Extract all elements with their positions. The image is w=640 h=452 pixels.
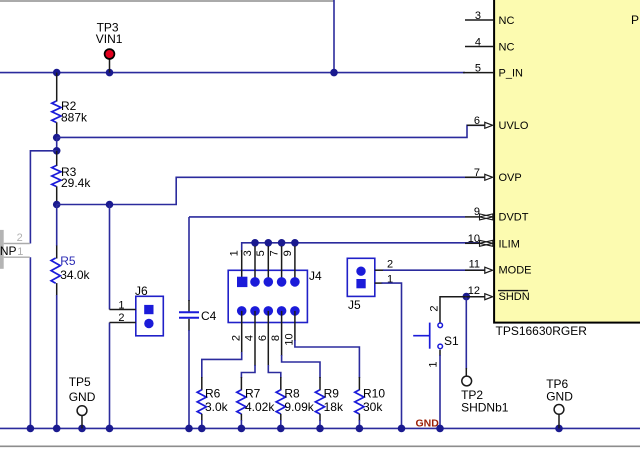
svg-text:R9: R9 [324, 387, 340, 401]
node junction R3 top / DNP branch [53, 147, 61, 155]
svg-text:NC: NC [499, 15, 515, 27]
resistor R7 4.02k [237, 377, 276, 428]
frame lines (decorative) [0, 0, 334, 2]
svg-text:12: 12 [468, 285, 480, 297]
svg-text:6: 6 [474, 115, 480, 127]
svg-text:3.0k: 3.0k [205, 400, 229, 414]
resistor R2 887k [52, 73, 88, 138]
svg-text:1: 1 [17, 246, 23, 258]
node junction VIN/TP3 [106, 69, 114, 77]
svg-text:R5: R5 [60, 254, 76, 268]
wire branch to DNP resistor at x=30.4 [30, 151, 56, 244]
wire DNP pin1 down to ground rail [29, 257, 31, 428]
svg-text:6: 6 [257, 335, 269, 341]
svg-text:10: 10 [468, 233, 480, 245]
node junction bus/pin7 [278, 239, 286, 247]
svg-text:4: 4 [244, 335, 256, 341]
wire J4 top bus y=242.8 to ILIM pin [242, 243, 482, 252]
svg-text:8: 8 [270, 335, 282, 341]
J4 bottom pin leads [242, 311, 295, 366]
wire J5 pin1 to ground rail [382, 283, 402, 428]
U1 pin 9 DVDT [465, 206, 529, 224]
wire between R2 node and R3 node [56, 138, 58, 151]
wire VIN bus y=72.6 [0, 72, 465, 74]
svg-text:4.02k: 4.02k [245, 400, 275, 414]
svg-text:34.0k: 34.0k [60, 268, 90, 282]
svg-text:P: P [631, 13, 639, 27]
switch S1 pushbutton [413, 306, 459, 368]
connector J5 [347, 258, 393, 312]
svg-text:2: 2 [230, 335, 242, 341]
node junction bus/pin3 [251, 239, 259, 247]
node junction rail/R10 [356, 425, 364, 433]
svg-text:9: 9 [474, 206, 480, 218]
svg-text:2: 2 [428, 306, 440, 312]
svg-text:OVP: OVP [499, 172, 522, 184]
svg-text:7: 7 [269, 250, 281, 256]
node junction rail/J5 [398, 425, 406, 433]
wire J4 pin10 to R10 [295, 340, 360, 378]
svg-text:30k: 30k [363, 400, 383, 414]
U1 pin 12 SHDN (active low) [466, 285, 529, 303]
wire S1 pin1 to ground rail [439, 350, 441, 356]
svg-text:R7: R7 [245, 387, 261, 401]
svg-text:2: 2 [17, 232, 23, 244]
node junction rail/R6 [198, 425, 206, 433]
wire J4 pin4 to R7 [241, 365, 255, 378]
wire UVLO net y=137.4 with jog up at x=467 [57, 125, 484, 137]
svg-text:J6: J6 [135, 284, 148, 298]
resistor R10 30k [355, 377, 386, 428]
resistor R6 3.0k [197, 377, 228, 428]
svg-text:11: 11 [469, 259, 480, 271]
testpoint TP3 VIN1 [96, 20, 123, 72]
wire MODE net from J5 pin2 [383, 269, 485, 271]
svg-text:S1: S1 [444, 334, 459, 348]
testpoint TP2 SHDNb1 [461, 376, 509, 415]
svg-text:ILIM: ILIM [499, 239, 520, 251]
resistor R9 18k [315, 377, 344, 428]
node junction bus/pin5 [265, 239, 273, 247]
wire J4 pin6 to R8 [268, 365, 281, 378]
svg-text:J5: J5 [348, 298, 361, 312]
node junction on VIN bus at x=334 [330, 69, 338, 77]
svg-text:4: 4 [475, 36, 481, 48]
wire J4 pin2 to R6 [202, 352, 242, 378]
wire DVDT net from C4 top [189, 216, 465, 218]
svg-text:2: 2 [118, 312, 124, 324]
J4 pads bottom row [237, 306, 247, 316]
svg-text:29.4k: 29.4k [61, 176, 91, 190]
connector J6 [110, 284, 164, 336]
wire SHDN to TP2 [465, 297, 467, 369]
svg-text:3: 3 [242, 250, 254, 256]
J4 pin number labels top row 1 3 5 7 9 [229, 250, 294, 256]
U1 pin 10 ILIM [465, 233, 520, 251]
svg-text:18k: 18k [324, 400, 344, 414]
connector J4 header 2x5 [228, 269, 322, 323]
node junction rail/TP5 [78, 425, 86, 433]
svg-text:C4: C4 [201, 309, 217, 323]
node junction bus/pin9 [291, 239, 299, 247]
J4 top pin leads [242, 246, 295, 282]
svg-text:GND: GND [69, 390, 96, 404]
svg-text:TPS16630RGER: TPS16630RGER [496, 324, 588, 338]
svg-text:GND: GND [546, 389, 573, 403]
wire vertical from top at x=334 [333, 0, 335, 73]
svg-text:NC: NC [499, 41, 515, 53]
wire J4 pin8 to R9 [282, 355, 320, 378]
svg-text:R6: R6 [205, 387, 221, 401]
svg-text:887k: 887k [61, 110, 88, 124]
svg-text:P_IN: P_IN [499, 67, 524, 79]
svg-text:10: 10 [283, 333, 295, 345]
svg-text:9.09k: 9.09k [284, 400, 314, 414]
node junction rail/R8 [277, 425, 285, 433]
node junction rail/S1 [436, 425, 444, 433]
node junction SHDN pin12 [463, 293, 471, 301]
ground rail wire y=428.4 [0, 427, 640, 429]
node junction rail/C4 [185, 425, 193, 433]
svg-text:3: 3 [475, 10, 481, 22]
J4 pin number labels bottom row 2 4 6 8 10 [230, 333, 295, 345]
J4 pads top row (pin1 square) [237, 277, 247, 287]
svg-text:DNP: DNP [0, 244, 17, 258]
svg-text:VIN1: VIN1 [96, 32, 123, 46]
svg-text:TP5: TP5 [69, 375, 91, 389]
node junction R2/R3/UVLO [53, 134, 61, 142]
capacitor C4 [179, 217, 217, 428]
svg-text:7: 7 [474, 167, 480, 179]
U1 pin 7 OVP [465, 167, 522, 184]
svg-text:1: 1 [428, 362, 440, 368]
node junction VIN/R2 [53, 69, 61, 77]
svg-text:1: 1 [229, 250, 241, 256]
wire OVP net y=204.5 jog up at x=176 [57, 177, 485, 204]
svg-text:R10: R10 [363, 387, 385, 401]
node junction rail/R5 [53, 425, 61, 433]
svg-text:5: 5 [255, 250, 267, 256]
U1 pin 4 NC [465, 36, 514, 53]
DNP component (greyed, off-page left) [0, 230, 30, 269]
wire SHDN to switch S1 [440, 297, 466, 324]
svg-text:9: 9 [282, 250, 294, 256]
svg-text:R8: R8 [284, 387, 300, 401]
op IC U1 TPS16630RGER block [494, 0, 640, 338]
resistor R5 34.0k [51, 205, 90, 429]
wire down to J6 pin1 [109, 205, 111, 310]
U1 pin 5 P_IN [463, 62, 523, 79]
svg-text:UVLO: UVLO [499, 120, 529, 132]
svg-text:5: 5 [475, 62, 481, 74]
node junction OVP/J6 branch [106, 201, 114, 209]
testpoint TP5 GND [69, 375, 96, 428]
node junction rail/J6 [106, 425, 114, 433]
resistor R8 9.09k [276, 377, 315, 428]
svg-text:SHDNb1: SHDNb1 [461, 401, 509, 415]
U1 pin 3 NC [465, 10, 514, 27]
svg-text:SHDN: SHDN [499, 291, 530, 303]
svg-text:MODE: MODE [499, 265, 532, 277]
node junction rail/R9 [316, 425, 324, 433]
node junction rail/R7 [238, 425, 246, 433]
U1 pin 11 MODE [465, 259, 532, 277]
svg-text:J4: J4 [309, 269, 322, 283]
svg-text:2: 2 [387, 259, 393, 271]
svg-text:DVDT: DVDT [499, 212, 529, 224]
node junction R3/R5/OVP [53, 201, 61, 209]
resistor R3 29.4k [52, 151, 92, 205]
U1 pin 6 UVLO [467, 115, 529, 132]
node junction rail/TP6 [555, 425, 563, 433]
testpoint TP6 GND [546, 377, 573, 428]
node junction rail/DNP [27, 425, 35, 433]
svg-text:1: 1 [118, 300, 124, 312]
wire J6 pin2 down to ground rail [109, 323, 111, 429]
